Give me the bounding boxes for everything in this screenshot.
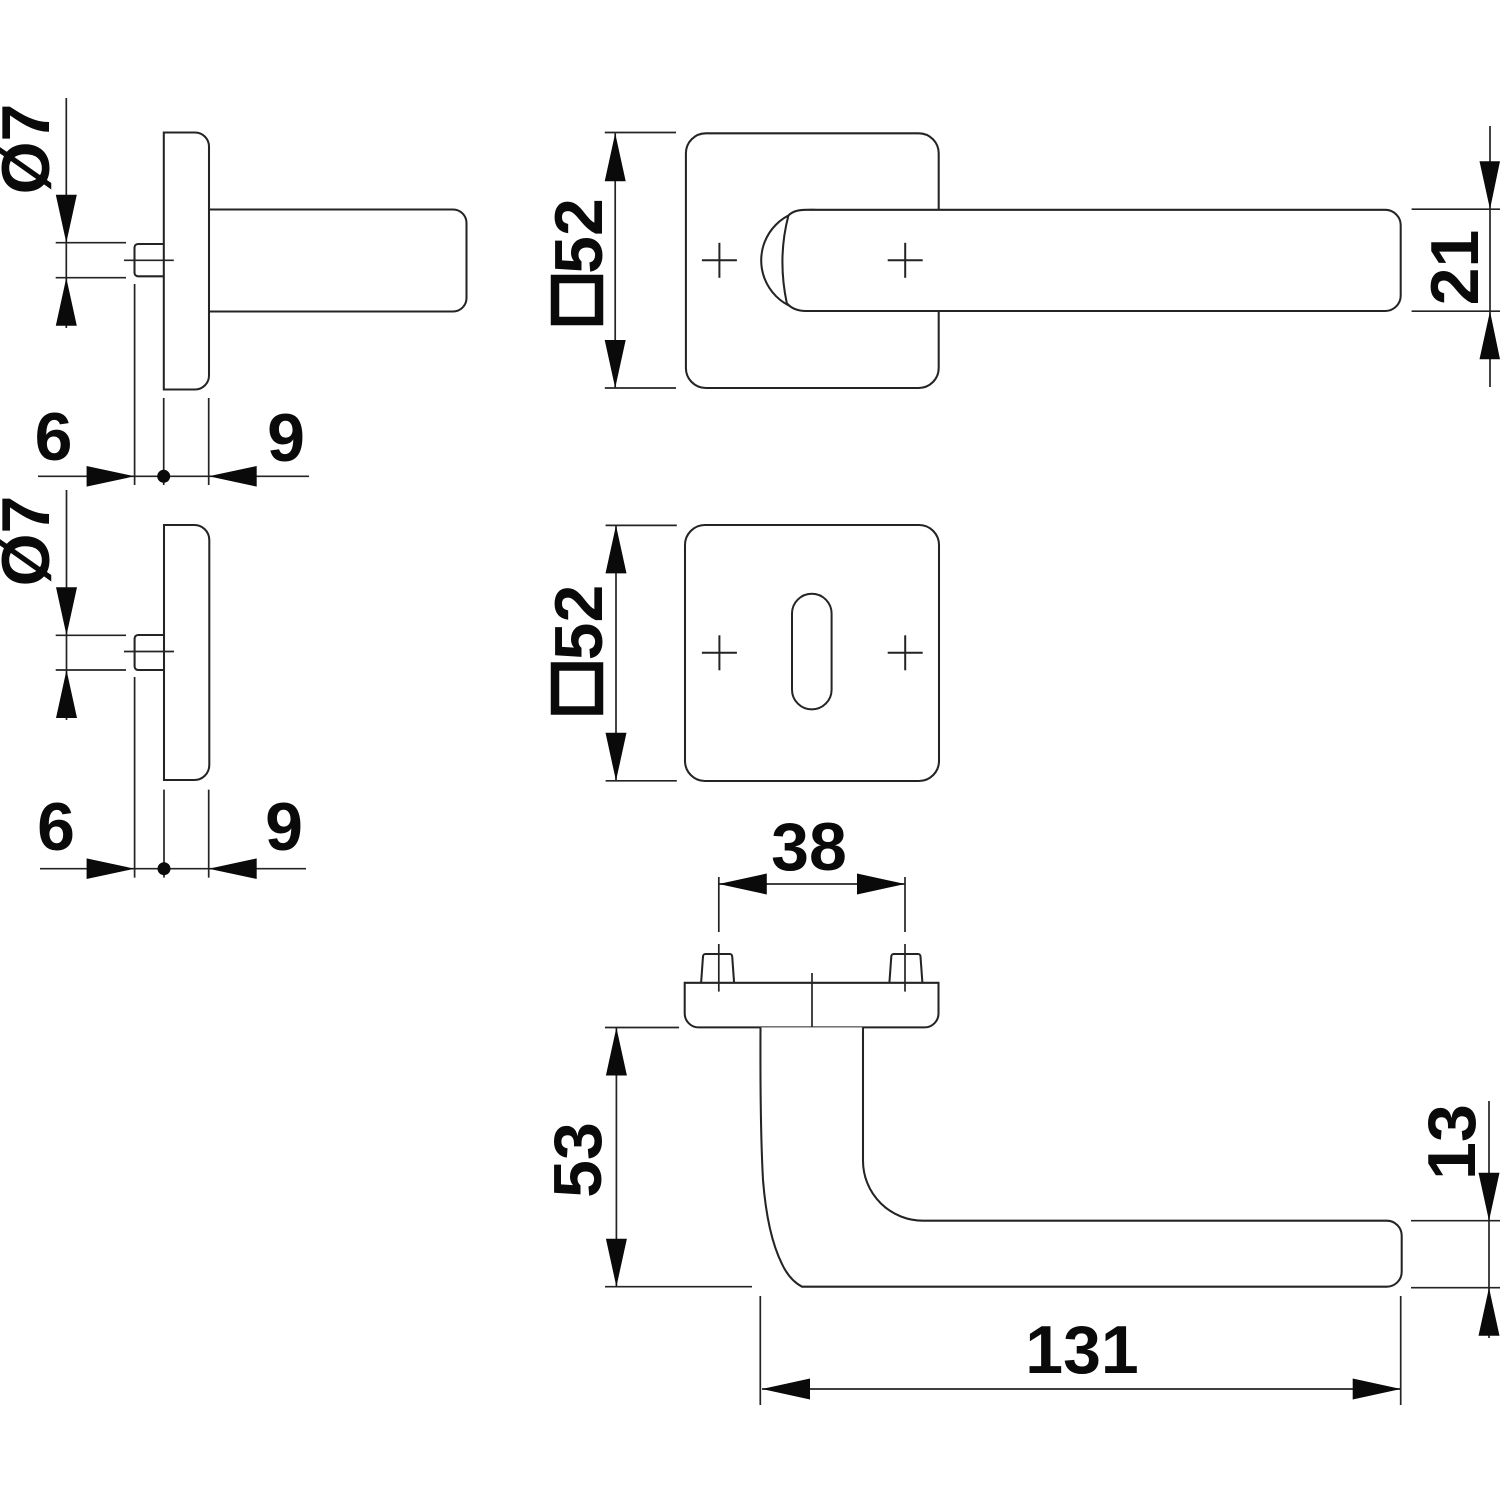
- plate center mark: [811, 973, 813, 1040]
- handle top view outline: [760, 1027, 1401, 1286]
- dimension 53 (view3): [605, 1028, 752, 1287]
- dimension sq52 (view2R): [606, 525, 677, 780]
- arrow down: [56, 587, 77, 635]
- svg-text:9: 9: [267, 400, 305, 476]
- rosette side profile: [164, 133, 209, 390]
- dimension sq52 (view1R): [605, 133, 676, 389]
- handle neck circle: [761, 210, 862, 311]
- spindle stub side view: [135, 635, 164, 670]
- ext line stub-left: [134, 284, 136, 485]
- arrow down inside: [605, 340, 626, 388]
- svg-text:6: 6: [37, 789, 75, 865]
- label square symbol (view1R): [555, 279, 599, 321]
- cross right (view1R): [888, 243, 923, 278]
- dimension O7 (view1): [56, 98, 126, 328]
- dim line: [38, 475, 309, 477]
- square rosette front: [686, 133, 939, 388]
- arrow down inside: [606, 733, 627, 781]
- arrow right inside: [857, 874, 905, 895]
- tick top: [56, 242, 126, 244]
- tick bottom: [56, 277, 126, 279]
- svg-text:53: 53: [540, 1122, 616, 1198]
- arrow up inside: [606, 1028, 627, 1076]
- cross right (view2R): [888, 635, 923, 670]
- left fixing pin: [701, 954, 734, 983]
- arrow up: [56, 670, 77, 718]
- svg-text:21: 21: [1417, 230, 1493, 306]
- svg-text:Ø7: Ø7: [0, 496, 64, 587]
- dimension 6 / 9 (view1): [38, 284, 309, 485]
- svg-text:52: 52: [541, 585, 617, 661]
- svg-text:13: 13: [1414, 1104, 1490, 1180]
- ext line rosette-left: [163, 398, 165, 485]
- stub center line: [124, 259, 174, 261]
- arrow left-pointing: [209, 858, 257, 879]
- dim dot: [158, 862, 171, 875]
- svg-text:6: 6: [35, 399, 73, 475]
- arrow right-pointing: [87, 466, 135, 487]
- dimension 6 / 9 (view2): [40, 677, 306, 878]
- dim dot: [157, 470, 170, 483]
- svg-text:52: 52: [541, 198, 617, 274]
- dimension 38 (view3): [719, 877, 905, 992]
- svg-text:9: 9: [265, 789, 303, 865]
- keyhole: [792, 594, 832, 710]
- rosette plate top view: [685, 983, 939, 1028]
- svg-text:131: 131: [1025, 1312, 1138, 1388]
- spindle stub side view: [135, 244, 164, 276]
- right fixing pin: [889, 954, 922, 983]
- arrow down: [56, 195, 77, 243]
- handle neck side view: [209, 210, 467, 312]
- cross left (view2R): [702, 635, 737, 670]
- arrow up inside: [606, 525, 627, 573]
- arrow left-pointing: [209, 466, 257, 487]
- arrow right inside: [1353, 1379, 1401, 1400]
- svg-text:38: 38: [771, 809, 847, 885]
- dimension 21 (view1R): [1412, 126, 1500, 387]
- svg-text:Ø7: Ø7: [0, 104, 64, 195]
- stub center line: [124, 651, 174, 653]
- label square symbol (view2R): [555, 667, 599, 711]
- arrow left inside: [719, 874, 767, 895]
- square rosette front: [685, 525, 939, 781]
- arrow down outside: [1479, 1173, 1500, 1221]
- rosette side profile: [164, 525, 209, 780]
- arrow up: [56, 278, 77, 326]
- handle grip front view: [782, 210, 1400, 311]
- cross left (view1R): [702, 243, 737, 278]
- arrow down outside: [1480, 161, 1500, 209]
- ext line rosette-right: [208, 398, 210, 485]
- arrow up outside: [1480, 311, 1500, 359]
- dimension O7 (view2): [56, 490, 126, 720]
- dimension 131 (view3): [760, 1296, 1400, 1405]
- arrow up outside: [1479, 1288, 1500, 1336]
- dimension 13 (view3): [1411, 1101, 1500, 1338]
- arrow right-pointing: [87, 858, 135, 879]
- arrow down inside: [606, 1239, 627, 1287]
- arrow up inside: [605, 133, 626, 181]
- arrow left inside: [762, 1379, 810, 1400]
- dim line: [65, 98, 67, 328]
